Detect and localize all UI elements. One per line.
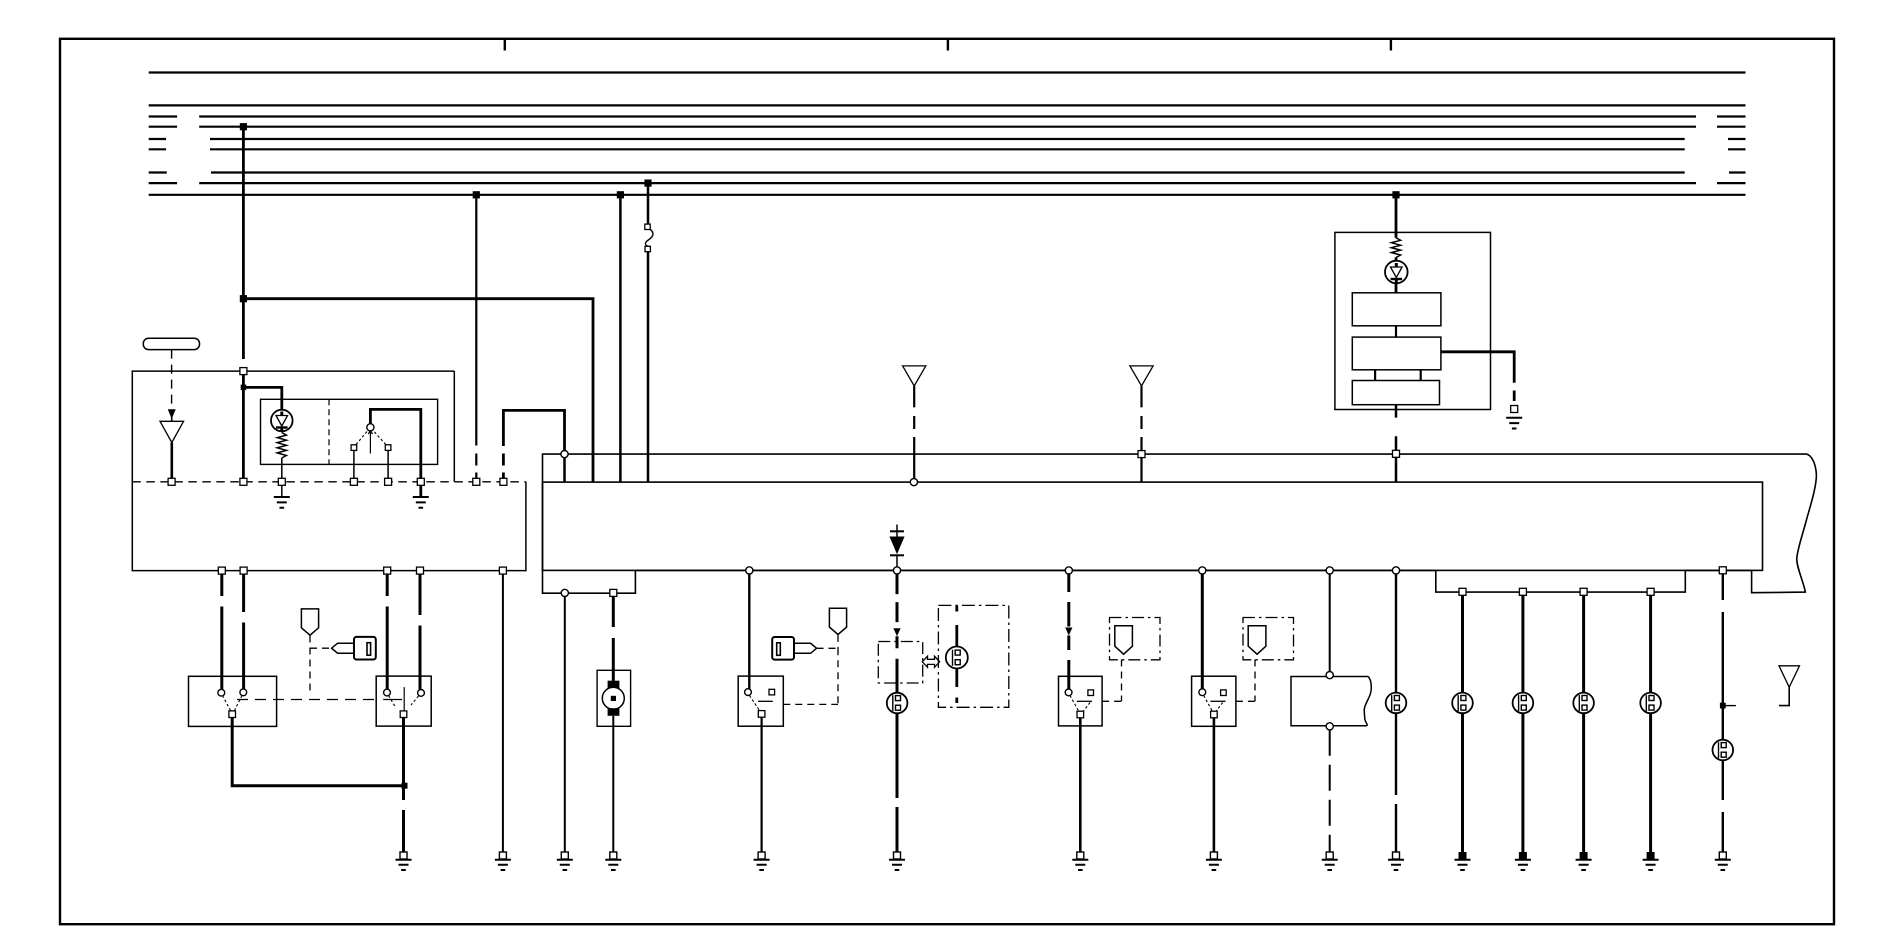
diode D3 [890,525,904,567]
box U3 outline [1335,232,1491,409]
motor M1 [602,681,624,716]
wire bus line 3 [149,115,1746,117]
ground G2 [413,482,429,508]
switch S3 common pin [400,711,407,718]
switch box S5 [1059,676,1103,726]
splice X1 [1720,703,1736,709]
ground G15 filled [1576,852,1592,870]
wire sensor to pin [171,443,174,482]
switch S6 contacts [1199,689,1226,711]
connector pill [143,338,199,349]
connector flask P2 [829,608,846,634]
wire W23 meter to bulb L3 [1395,574,1397,693]
wire W18 meter to switch S4 [748,574,750,692]
wire C1 to ground [1329,730,1331,852]
pin U3 wire at meter top [1393,450,1400,457]
antenna T3 [1130,366,1153,482]
box U2 combination meter outer outline with torn edge [543,454,1817,593]
wire S2 common to junction [232,718,404,786]
ground G6 [557,852,573,870]
switch S6 common pin [1211,711,1218,718]
dashed key link left [310,636,332,695]
pins connector box C1 [1326,672,1333,730]
pin meter top W3 [561,451,568,458]
connector flask P3 [1115,626,1133,655]
pins meter tab 1 [561,589,617,596]
ground G7 [754,852,770,870]
wire U3b to ground [1441,352,1514,401]
junction W1 branch [240,295,247,302]
bulb L7 [1640,693,1661,714]
key K1 [332,637,376,660]
wires U3b-U3c [1375,370,1421,381]
wire W24 tab to bulb L4 [1461,595,1464,692]
wire L7 to ground [1649,713,1652,852]
dashed actuation link from pill [171,350,173,408]
shield box SH4 [1243,618,1294,660]
wire U3a-U3b [1395,326,1397,337]
wire bus line 1 [149,71,1746,73]
wire W22 meter to connector box [1329,574,1331,671]
wire L8 to ground [1722,760,1724,852]
mechanical link S2-S3 [237,699,376,701]
wire W26 tab to bulb L6 [1582,595,1585,692]
junction on bus line 4 [240,123,247,130]
switch S5 contacts [1065,689,1093,711]
wire bus line 5 [149,138,1746,140]
switch S5 common pin [1077,711,1084,718]
ground G4 [495,852,511,870]
shield box SH1 [878,642,922,684]
sensor triangle T1 [160,421,184,442]
wire bus line 4 [149,126,1746,128]
wire L4 to ground [1461,713,1464,852]
wire S6 common to ground [1213,718,1216,852]
wire W1 bus to gauge assembly [242,127,245,482]
wire W10 bus to unit U3 [1395,195,1398,238]
ground G5 [605,852,621,870]
indicator LED D1 [271,410,293,432]
wire bus line 6 [149,148,1746,150]
ground G11 [1322,852,1338,870]
wire W2 bus to pin [475,195,477,482]
dashed link S6 flask [1236,660,1255,702]
connector dashed line A1 [132,481,526,483]
connector flask P4 [1248,626,1266,655]
wire W28 meter to bulb L8 [1722,574,1724,739]
option arrow [922,656,939,667]
wire W25 tab to bulb L5 [1521,595,1524,692]
wire L3 to ground [1395,713,1397,852]
wire U3 to meter [1395,405,1398,482]
wire W15 to ground [502,574,504,852]
bulb L8 [1713,740,1734,761]
wire L5 to ground [1521,713,1524,852]
arrowhead into sensor [169,410,176,422]
box A1 inner sub-box [261,399,438,464]
wire W20 meter to switch S5 [1065,574,1072,692]
connector pins bottom A1 [218,567,506,574]
ground G13 filled [1455,852,1471,870]
circuit breaker CB1 [645,224,653,252]
ground G17 [1715,852,1731,870]
wire M1 to ground [612,716,614,852]
junction W7 [644,180,651,187]
wire W13 to switch S3 [386,574,389,692]
pin antenna T3 [1138,451,1145,458]
resistor R1 [277,433,286,459]
shield box SH3 [1110,618,1161,660]
bulb L3 [1386,693,1407,714]
junction S2/S3 commons [402,783,408,789]
shield box SH2 [938,605,1008,707]
ground G16 filled [1643,852,1659,870]
switch box S6 [1192,676,1236,726]
dashed link S5 flask [1102,660,1121,702]
connector flask P1 [301,609,318,635]
connector pins row A1 [168,478,507,485]
wire bus line 7 [149,171,1746,173]
wire bus line 2 [149,104,1746,106]
wire W7 bus to meter via breaker [647,183,650,482]
ground G12 [1388,852,1404,870]
wire W17 tab to ground [564,596,566,852]
bulb L1 [887,693,908,714]
wire S4 common to ground [760,717,762,852]
pin W1 at gauge assembly top [240,368,247,375]
antenna T4 [1779,666,1800,706]
wire bus line 9 [149,194,1746,196]
resistor R2 [1391,238,1400,258]
wire S5 common to ground [1079,718,1082,852]
bulb L6 [1573,693,1594,714]
pin antenna T2 [910,479,917,486]
ground G3 [396,852,412,870]
wire W14 to switch S3 [419,574,422,693]
wire W16 tab to washer motor [612,596,615,684]
bulb L5 [1513,693,1534,714]
wire L6 to ground [1582,713,1585,852]
wire W11 to switch S2 [220,574,223,692]
switch S4 common pin [758,711,765,718]
wire bus line 8 [149,182,1746,184]
ground G9 [1072,852,1088,870]
switch box S3 [376,676,431,726]
wire S3 common to ground [402,718,405,853]
pins meter tab 2 [1459,588,1654,595]
switch box S4 [738,676,783,726]
wire to indicator LED D1 [241,385,282,410]
connector box C1 torn edge [1291,677,1371,726]
wire S1 common to pin [370,409,420,481]
junction W10 [1392,191,1399,198]
dashed key link right [783,635,838,705]
ground G1 [274,482,290,508]
switch S2 common pin [229,711,236,718]
switch S3 contacts [383,687,424,711]
key K2 [772,637,816,660]
wire W21 meter to switch S6 [1201,574,1204,692]
wire L1 to ground [896,713,899,852]
switch S4 contacts [745,689,775,711]
wire W12 to switch S2 [242,574,245,692]
box U2 inner rectangle [543,482,1763,570]
switch S1 rotary common [356,424,386,454]
wire W3 pin up-over to meter [503,410,564,481]
wire W19 diode branch down [893,574,900,692]
junction W6 [617,191,624,198]
box A1 gauge assembly outline [132,371,526,570]
switch box S2 [189,676,277,726]
wire W5 branch to meter [243,299,593,482]
bulb L2 [946,606,968,703]
block U3b [1352,337,1441,370]
bulb L4 [1452,693,1473,714]
antenna T2 [903,366,926,479]
LED D2 [1385,258,1408,284]
switch S2 contacts [218,689,247,711]
wires S1 contacts to pins [354,450,388,481]
wire W6 bus to meter [619,195,622,482]
ground G14 filled [1515,852,1531,870]
wire W27 tab to bulb L7 [1649,595,1652,692]
motor box M1 [597,670,631,726]
block U3c [1352,381,1439,405]
wire W4 meter pin to inner [563,454,566,482]
ground G8 [889,852,905,870]
block U3a [1352,293,1441,326]
pins meter bottom row [746,567,1727,574]
junction W2 on bus line 9 [473,191,480,198]
switch S1 contact pins [351,445,391,451]
wire R1 to pin [281,458,283,482]
wire D2 to block 1 [1395,283,1398,293]
ground G18 [1506,406,1522,429]
ground G10 [1206,852,1222,870]
